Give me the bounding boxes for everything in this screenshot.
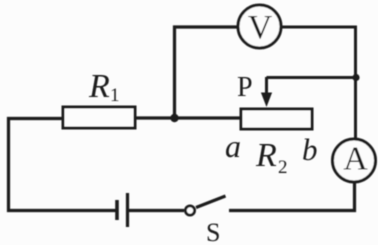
wiper P arrow	[237, 72, 272, 107]
svg-text:a: a	[225, 128, 241, 164]
node junction right (wiper tap)	[352, 74, 359, 81]
wire ammeter bottom to bottom-right corner	[229, 182, 355, 211]
node junction middle	[170, 114, 178, 122]
svg-text:1: 1	[110, 85, 120, 106]
rheostat R2 body	[241, 109, 312, 178]
svg-text:2: 2	[278, 157, 288, 178]
wire top-left vertical + top horizontal to voltmeter	[175, 27, 239, 118]
resistor R1	[63, 68, 135, 128]
svg-text:R: R	[255, 137, 277, 174]
battery cell	[117, 193, 128, 227]
wire battery to bottom-left corner, up left side, to R1	[9, 119, 116, 211]
ammeter U-A	[333, 139, 376, 182]
svg-text:A: A	[343, 141, 368, 178]
svg-text:V: V	[248, 9, 273, 46]
switch S	[185, 196, 225, 245]
svg-text:S: S	[206, 218, 220, 245]
svg-text:R: R	[88, 68, 110, 105]
wire voltmeter right to top-right corner down to node	[281, 27, 356, 78]
svg-text:P: P	[237, 72, 253, 103]
wire node to ammeter top	[354, 78, 357, 140]
wire R1 to R2 with junction	[135, 116, 241, 119]
wire switch to battery	[129, 209, 184, 212]
voltmeter U-V	[238, 5, 281, 48]
svg-text:b: b	[302, 132, 318, 167]
wire wiper to right node	[267, 76, 357, 79]
